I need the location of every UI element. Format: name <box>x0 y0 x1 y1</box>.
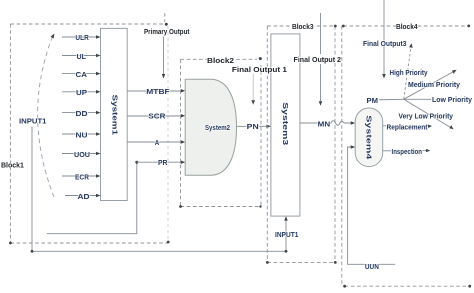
svg-text:Low Priority: Low Priority <box>432 97 472 104</box>
wire PN <box>237 124 271 131</box>
System3 <box>271 34 300 216</box>
input wire DD <box>62 111 101 118</box>
wire PR <box>137 160 185 167</box>
svg-text:Block4: Block4 <box>396 24 418 31</box>
svg-text:INPUT1: INPUT1 <box>275 232 298 239</box>
wire Replacement <box>383 124 432 131</box>
wire right to Low Priority <box>404 98 431 100</box>
input wire AD <box>65 194 101 201</box>
svg-text:A: A <box>155 140 160 147</box>
svg-text:System4: System4 <box>364 115 371 159</box>
svg-text:System2: System2 <box>205 125 230 132</box>
svg-text:High Priority: High Priority <box>390 70 428 77</box>
input wire CA <box>62 72 101 79</box>
svg-text:ULR: ULR <box>75 35 88 42</box>
input wire NU <box>62 132 101 139</box>
svg-text:MTBF: MTBF <box>146 89 170 96</box>
svg-text:Replacement: Replacement <box>387 124 429 131</box>
svg-text:AD: AD <box>78 194 90 201</box>
wire INPUT1 feedback down-right to System3 bottom <box>31 127 288 253</box>
Primary Output arrow <box>162 37 166 79</box>
svg-text:PM: PM <box>367 98 379 105</box>
input wire UL <box>62 54 101 61</box>
svg-text:Medium Priority: Medium Priority <box>408 82 460 89</box>
input wire UOU <box>62 152 101 159</box>
svg-text:Inspection: Inspection <box>392 149 423 156</box>
svg-text:Block2: Block2 <box>207 58 234 65</box>
node fan point <box>404 43 457 129</box>
System1 <box>101 28 128 200</box>
System4 <box>355 108 383 167</box>
vertical line from top to PM <box>382 0 386 79</box>
svg-text:ECR: ECR <box>75 174 89 181</box>
Final Output 2 arrow <box>319 13 323 106</box>
svg-text:UP: UP <box>76 90 87 97</box>
System2 <box>185 79 236 175</box>
Block4 dashed boundary <box>342 25 471 288</box>
svg-text:INPUT1: INPUT1 <box>19 118 47 125</box>
svg-text:Final Output3: Final Output3 <box>363 41 407 48</box>
wire Inspection <box>383 149 431 156</box>
dashed arrow up to Final Output3 <box>404 48 411 100</box>
arrow down-right (very low priority) <box>404 99 450 127</box>
svg-text:SCR: SCR <box>148 114 165 121</box>
svg-text:Block1: Block1 <box>1 163 24 170</box>
arrow up-right (high/medium priority) <box>404 72 453 99</box>
svg-text:Primary Output: Primary Output <box>144 29 190 36</box>
svg-text:System3: System3 <box>281 102 288 145</box>
input wire UP <box>62 90 101 97</box>
Block3 dashed boundary <box>266 25 337 264</box>
Block1 dashed boundary <box>9 23 170 245</box>
svg-text:NU: NU <box>76 132 88 139</box>
PM label and wire to fan node <box>367 98 404 105</box>
wire UUN feedback <box>348 145 396 271</box>
svg-text:Very Low Priority: Very Low Priority <box>399 113 454 120</box>
wire PR feedback L-shape <box>47 161 139 234</box>
Primary Output stub <box>164 13 166 22</box>
svg-text:Final Output 1: Final Output 1 <box>232 67 287 74</box>
wire A <box>127 140 185 147</box>
Block2 dashed boundary <box>179 57 262 208</box>
svg-text:PR: PR <box>158 160 168 167</box>
input wire ULR <box>62 35 101 42</box>
svg-text:Final Output 2: Final Output 2 <box>294 57 342 64</box>
wire SCR <box>127 114 185 121</box>
INPUT1 grouping arc <box>38 34 55 198</box>
svg-text:UUN: UUN <box>365 264 379 271</box>
Final Output 1 arrow <box>251 74 255 105</box>
svg-text:DD: DD <box>76 111 88 118</box>
wire MN with squiggle <box>300 121 355 129</box>
svg-text:UL: UL <box>77 54 87 61</box>
svg-text:PN: PN <box>247 124 259 131</box>
input wire ECR <box>62 174 101 181</box>
svg-text:UOU: UOU <box>74 152 90 159</box>
svg-text:MN: MN <box>318 121 331 128</box>
svg-text:Block3: Block3 <box>292 24 314 31</box>
wire MTBF <box>127 89 185 96</box>
svg-text:CA: CA <box>76 72 88 79</box>
svg-text:System1: System1 <box>111 95 118 136</box>
